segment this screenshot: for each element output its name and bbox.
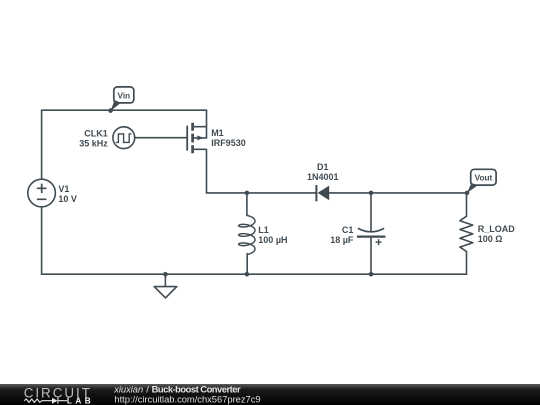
diode D1 cathode bar (315, 185, 317, 201)
wire R_LOAD bottom lead (466, 251, 468, 274)
svg-text:35 kHz: 35 kHz (79, 138, 108, 148)
wire left rail upper (V1 to top) (41, 110, 43, 179)
footer bar (0, 384, 540, 405)
node dot Vout (465, 191, 470, 196)
svg-text:C1: C1 (342, 225, 354, 235)
svg-text:18 µF: 18 µF (330, 235, 354, 245)
node dot C1 bottom (369, 272, 374, 277)
svg-text:Vout: Vout (475, 174, 493, 183)
R_LOAD labels (478, 224, 516, 244)
wire diode anode to output node (329, 192, 466, 194)
node dot ground (163, 272, 168, 277)
capacitor C1 top curved plate (358, 228, 384, 232)
wire M1 drain to switch node (206, 149, 208, 193)
wire bottom ground rail (42, 273, 467, 275)
CLK1 labels (79, 128, 108, 148)
C1 plus sign (376, 239, 382, 245)
svg-text:M1: M1 (211, 128, 224, 138)
svg-text:V1: V1 (58, 184, 69, 194)
wire top rail Vin (42, 109, 207, 111)
voltage source V1 (28, 179, 56, 207)
node dot L1 top (245, 191, 250, 196)
wire ground stub (164, 274, 166, 286)
flag Vout tail (467, 183, 478, 193)
M1 labels (211, 128, 246, 148)
resistor R_LOAD zigzag (460, 216, 473, 251)
D1 labels (307, 162, 339, 182)
flag Vin tail (111, 100, 121, 111)
ground symbol (154, 287, 177, 298)
wire M1 source stub (206, 110, 208, 138)
svg-text:LAB: LAB (67, 396, 91, 405)
svg-text:100 Ω: 100 Ω (478, 234, 503, 244)
svg-text:100 µH: 100 µH (258, 235, 287, 245)
svg-text:Vin: Vin (118, 91, 131, 100)
clock source CLK1 (113, 127, 135, 149)
svg-text:http://circuitlab.com/chx567pr: http://circuitlab.com/chx567prez7c9 (114, 393, 260, 404)
flag Vin box (114, 87, 134, 103)
diode D1 triangle (318, 186, 330, 201)
inductor L1 coil (239, 215, 255, 254)
svg-text:R_LOAD: R_LOAD (478, 224, 516, 234)
flag Vout box (471, 169, 496, 185)
svg-text:CLK1: CLK1 (84, 128, 108, 138)
svg-text:1N4001: 1N4001 (307, 172, 339, 182)
wire R_LOAD top lead (466, 193, 468, 216)
svg-text:10 V: 10 V (58, 194, 77, 204)
svg-text:L1: L1 (258, 225, 269, 235)
wire C1 bottom lead (370, 238, 372, 275)
wire C1 top lead (370, 193, 372, 231)
svg-text:IRF9530: IRF9530 (211, 138, 246, 148)
wire switch node to diode cathode (207, 192, 316, 194)
wire left rail lower (V1 to bottom) (41, 207, 43, 274)
node dot L1 bottom (245, 272, 250, 277)
capacitor C1 bottom plate (357, 236, 386, 238)
V1 labels (58, 184, 77, 204)
wire CLK1 to gate (135, 137, 188, 139)
C1 labels (330, 225, 354, 245)
wire L1 top lead (246, 193, 248, 216)
node dot Vin (108, 108, 113, 113)
svg-text:D1: D1 (317, 162, 329, 172)
M1 bulk arrow (197, 135, 203, 140)
L1 labels (258, 225, 287, 245)
logo resistor-diode squiggle (24, 398, 67, 404)
logo diode triangle (52, 398, 58, 404)
MOSFET M1 (187, 123, 206, 154)
node dot C1 top (369, 191, 374, 196)
wire L1 bottom lead (246, 254, 248, 275)
